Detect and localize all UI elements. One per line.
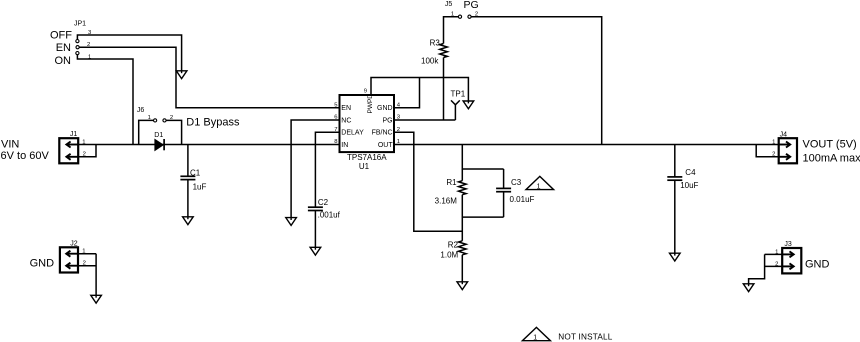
svg-text:JP1: JP1 [74,21,86,28]
svg-text:D1 Bypass: D1 Bypass [186,117,240,129]
wire J6 pin1 to rail [139,120,154,144]
IC U1 box [340,95,395,152]
ground C4 [670,253,681,261]
svg-text:ON: ON [55,55,72,67]
svg-text:6V to 60V: 6V to 60V [1,150,50,162]
svg-text:J6: J6 [137,107,145,114]
wire J5 pin1 to R3 [444,17,459,44]
svg-text:DELAY: DELAY [341,130,364,137]
svg-text:0.01uF: 0.01uF [510,195,535,204]
svg-text:J3: J3 [784,241,792,248]
wire U1 pin2 FB riser [394,132,462,231]
svg-text:100mA max: 100mA max [803,152,860,164]
wire R1 C3 top link [462,145,503,170]
svg-text:OFF: OFF [50,30,72,42]
wire U1 pin3 PG to TP1 [394,119,455,121]
svg-text:TPS7A16A: TPS7A16A [347,153,387,162]
wire JP1 pin1 to VIN rail [77,55,133,145]
wire R1 C3 bottom link [462,216,503,218]
ground C1 [183,216,194,224]
ground R2 [457,281,468,289]
ground NC net [286,217,297,225]
svg-text:EN: EN [56,42,71,54]
svg-text:1: 1 [533,334,537,341]
connector J4 [779,138,797,163]
wire J2 pins to ground [78,254,96,296]
svg-text:J1: J1 [70,131,78,138]
svg-text:NC: NC [341,118,351,125]
svg-text:1uF: 1uF [193,183,207,192]
wire VIN rail [78,144,339,146]
connector J1 [59,138,78,163]
wire J5 pin2 to VOUT rail [471,17,602,145]
svg-text:TP1: TP1 [451,89,466,98]
capacitor C4 [667,145,682,254]
svg-text:9: 9 [364,89,367,95]
connector J3 [782,248,801,273]
connector J2 [60,247,78,272]
ground J3 [743,283,754,291]
svg-text:GND: GND [30,257,54,269]
capacitor C2 [308,207,323,247]
svg-text:IN: IN [341,142,348,149]
wire J1 pin2 loop to rail [78,145,96,157]
svg-text:J4: J4 [780,131,788,138]
wire JP1 pin2 to U1 EN [79,47,339,107]
not-install flag triangle 1 [526,176,554,190]
svg-text:OUT: OUT [378,142,394,149]
capacitor C3 [496,169,511,217]
ground PWPD net [463,101,474,109]
svg-text:GND: GND [377,105,393,112]
svg-text:C2: C2 [318,198,329,207]
test point TP1 [451,100,460,120]
svg-text:EN: EN [341,105,351,112]
svg-text:C4: C4 [685,168,696,177]
wire VOUT rail [394,144,779,146]
ground OFF net [176,70,187,78]
svg-text:C3: C3 [511,178,522,187]
svg-text:1.0M: 1.0M [440,251,458,260]
wire U1 pin9 PWPD to ground [371,78,468,102]
svg-text:1: 1 [772,140,775,146]
svg-text:10uF: 10uF [680,181,698,190]
wire U1 pin7 DELAY to C2 [315,132,339,207]
ground J2 [91,295,102,303]
resistor R1 [459,169,467,241]
wire U1 pin6 NC to ground [291,120,339,218]
svg-text:1: 1 [537,183,541,190]
svg-text:.001uf: .001uf [318,211,341,220]
not-install legend triangle 1 [522,327,550,341]
connector J5 [458,15,471,18]
svg-text:R1: R1 [446,178,457,187]
svg-text:J5: J5 [445,1,453,8]
svg-text:VOUT (5V): VOUT (5V) [803,139,857,151]
svg-text:PWPD: PWPD [367,94,374,114]
wire J4 pin2 loop to rail [756,145,779,157]
resistor R2 [459,241,467,282]
diode D1 [155,139,164,150]
svg-text:VIN: VIN [1,139,19,151]
svg-text:GND: GND [805,259,830,271]
wire J6 pin2 to rail [166,120,181,144]
svg-text:R3: R3 [430,39,441,48]
svg-text:NOT INSTALL: NOT INSTALL [558,333,612,342]
resistor R3 [440,44,448,121]
svg-text:D1: D1 [154,132,163,139]
connector JP1 pin circles [76,40,79,55]
ground C2 [310,247,321,255]
wire JP1 pin3 to ground [77,35,181,71]
svg-text:U1: U1 [359,162,370,171]
svg-text:100k: 100k [421,57,439,66]
wire J3 pins to ground [749,254,783,283]
svg-text:R2: R2 [448,241,459,250]
svg-text:PG: PG [464,0,479,11]
svg-text:C1: C1 [190,168,201,177]
capacitor C1 [180,145,195,217]
wire U1 pin4 GND riser [394,78,420,108]
svg-text:3.16M: 3.16M [435,196,458,205]
connector J6 [154,119,167,122]
svg-text:PG: PG [382,118,392,125]
svg-text:FB/NC: FB/NC [372,130,393,137]
svg-text:J2: J2 [70,241,78,248]
